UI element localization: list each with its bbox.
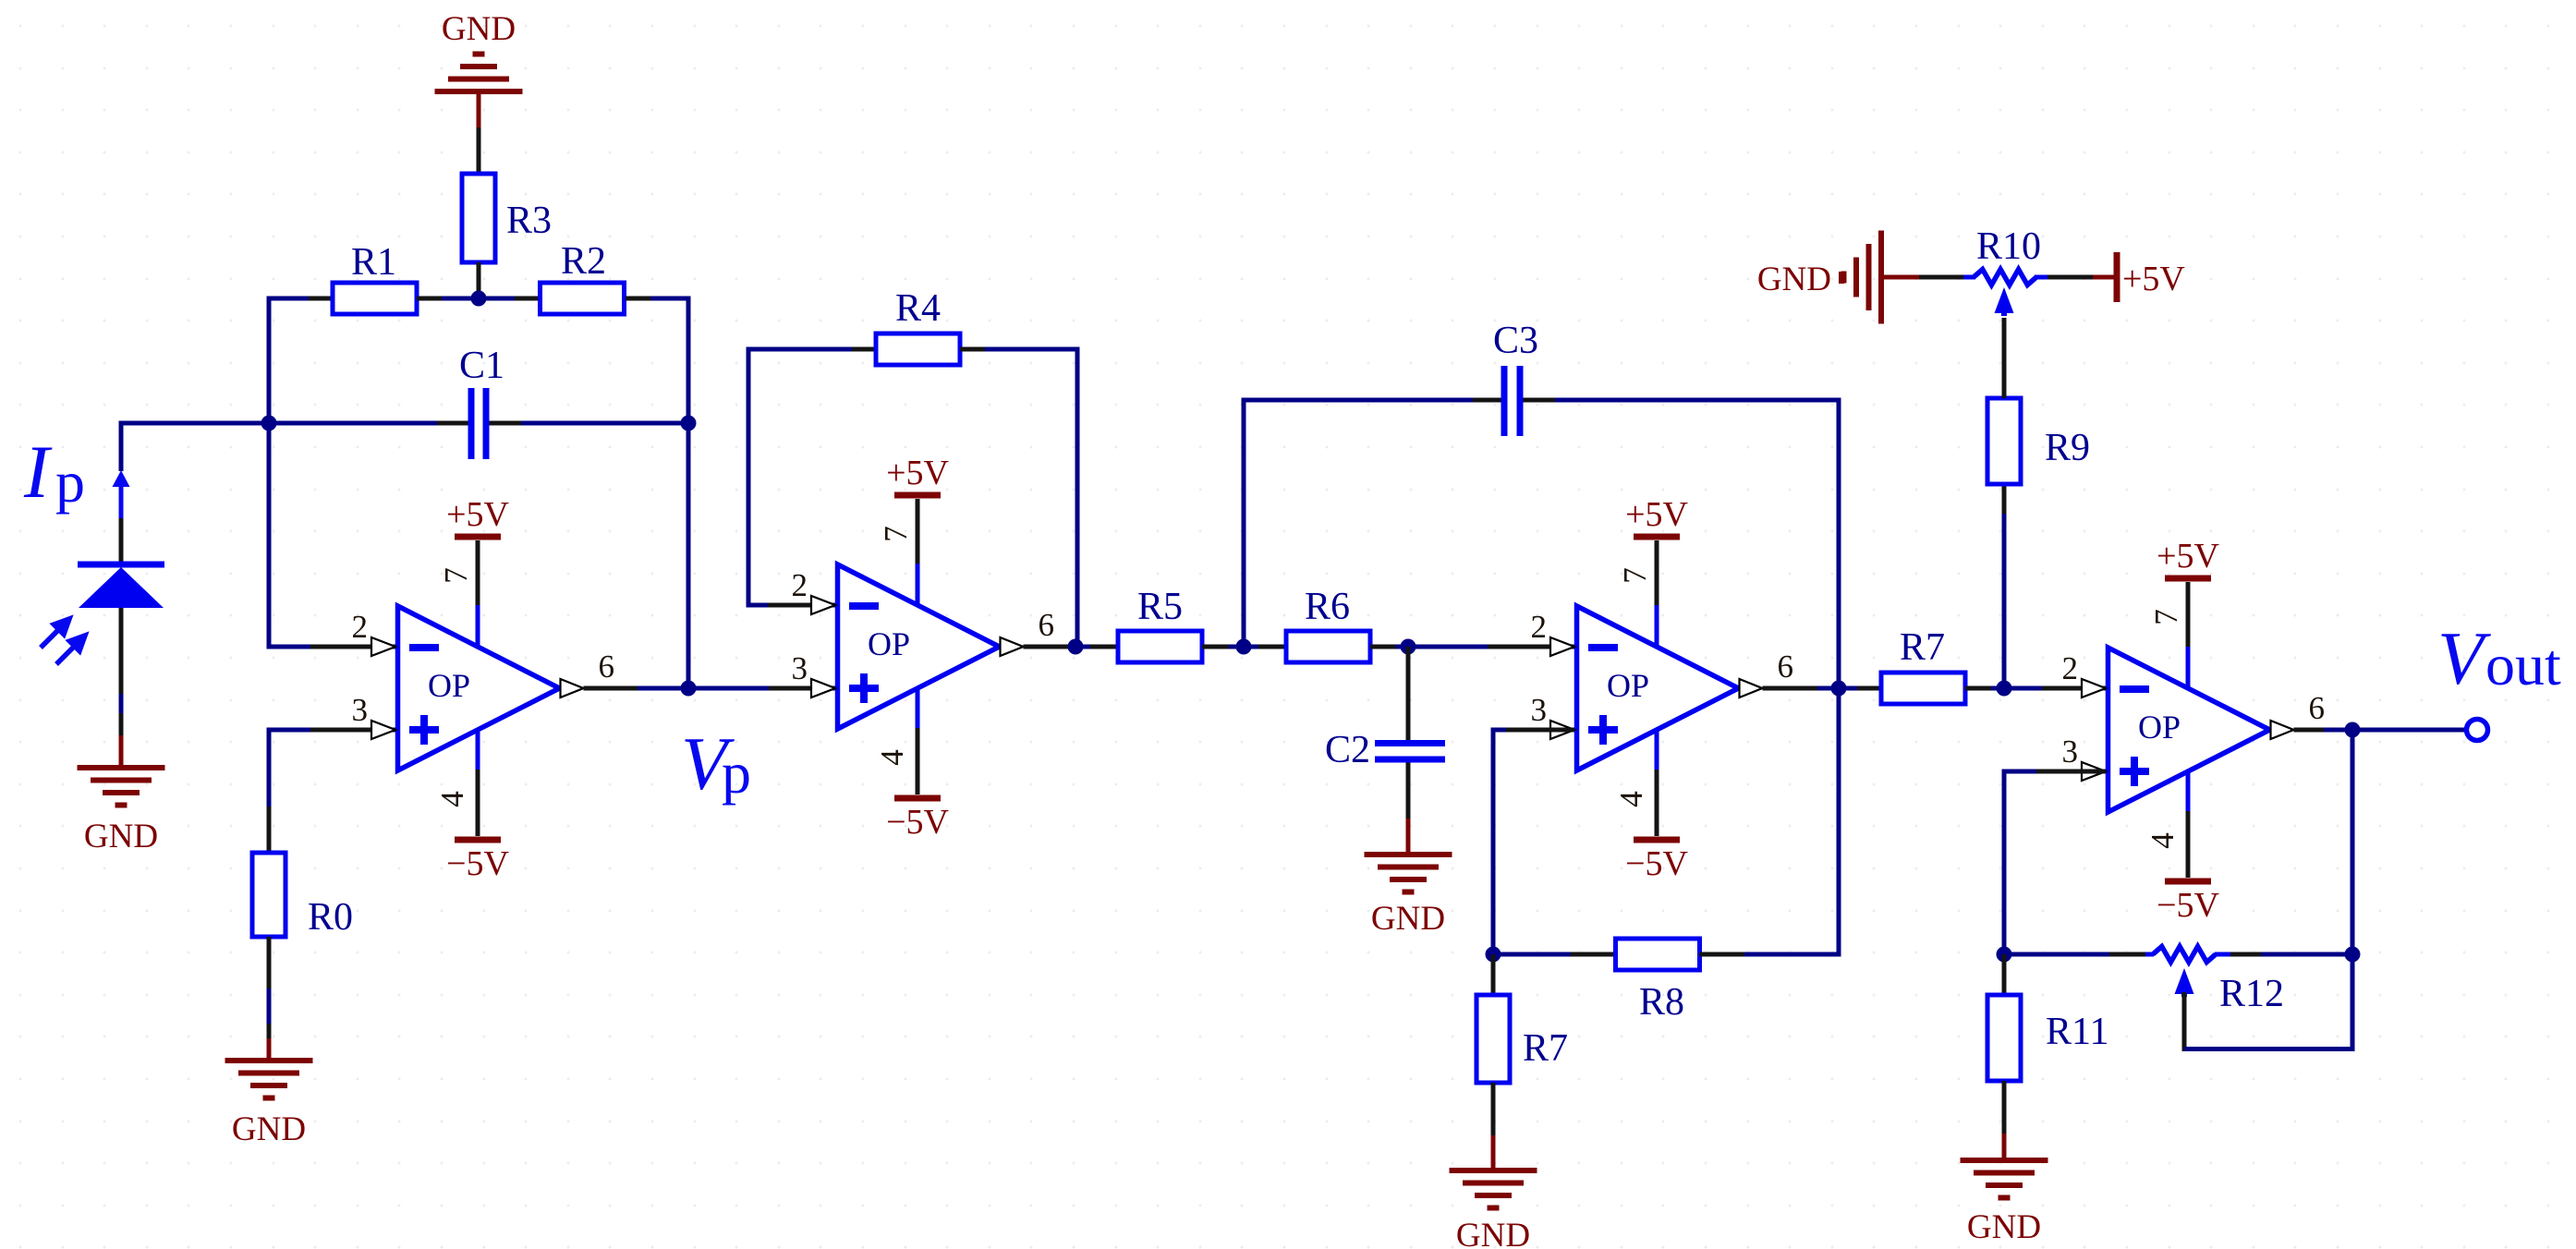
−5V label U3: [1625, 844, 1688, 883]
wire right column C1-row to Vp-row: [687, 423, 691, 688]
wire R2 right pin: [626, 297, 650, 301]
svg-text:R5: R5: [1137, 586, 1183, 628]
junction R1/R2/R3: [471, 291, 487, 307]
svg-text:V: V: [2437, 616, 2491, 700]
wire node to U4 pin 2: [2004, 686, 2106, 691]
wire R1 to node: [442, 297, 479, 301]
resistor R4: [876, 333, 960, 365]
wire R3 bottom pin: [477, 262, 481, 298]
svg-text:+5V: +5V: [446, 495, 509, 534]
wire R3 top pin: [477, 127, 481, 174]
wire R5 right pin: [1202, 645, 1244, 649]
photodiode D1: [78, 564, 164, 608]
svg-text:7: 7: [878, 526, 914, 542]
svg-text:R12: R12: [2219, 973, 2284, 1015]
junction C1 right node: [681, 416, 697, 431]
resistor R11: [1987, 995, 2021, 1081]
svg-text:4: 4: [2145, 832, 2181, 849]
R7 label (bottom): [1523, 1027, 1568, 1070]
R6 label: [1305, 586, 1350, 628]
output terminal (Vout): [2467, 720, 2488, 741]
Vp label: [681, 722, 751, 806]
U1 pin 2 label: [352, 609, 369, 645]
wire R5 left pin: [1075, 645, 1118, 649]
C1 label: [459, 345, 504, 387]
wire R6 left pin: [1244, 645, 1286, 649]
Ip current arrow: [113, 470, 130, 518]
wire left column R1-row to C1-row: [267, 297, 272, 424]
wire R1 left pin: [309, 297, 333, 301]
wire U2 output pin 6: [1024, 645, 1076, 649]
resistor R3: [462, 174, 495, 262]
svg-text:+5V: +5V: [1625, 495, 1688, 534]
wire C2 bottom pin: [1406, 763, 1411, 819]
GND label (below R0): [232, 1110, 306, 1148]
resistor R6: [1286, 631, 1370, 662]
junction R7/R8 node: [1486, 947, 1501, 963]
wire Vout node to terminal: [2352, 728, 2465, 733]
wire U3 output pin 6: [1763, 686, 1840, 691]
junction R12 right node: [2345, 947, 2361, 963]
wire U2 pin 2 feedback corner: [748, 347, 835, 608]
U3 pin 6 label: [1778, 649, 1794, 685]
wire R6 right pin: [1370, 645, 1408, 649]
U4 pin 6 arrow: [2271, 721, 2294, 739]
svg-text:GND: GND: [1456, 1217, 1530, 1249]
wire R10 wiper to R9: [2002, 318, 2007, 398]
capacitor C3: [1501, 366, 1524, 436]
junction R5/R6/C3 node: [1236, 639, 1252, 655]
wire op-amp U1 pin 2: [267, 645, 396, 649]
svg-text:+5V: +5V: [2157, 537, 2219, 576]
svg-text:R9: R9: [2045, 427, 2090, 469]
svg-text:6: 6: [2309, 690, 2326, 726]
−5V label U2: [886, 803, 949, 842]
wire to ground (R7): [1491, 1135, 1496, 1170]
wire R1 right pin: [417, 297, 442, 301]
wire R11 top pin: [2002, 954, 2007, 995]
junction R6/C2/U3 node: [1401, 639, 1416, 655]
svg-text:3: 3: [2062, 734, 2079, 770]
wire Vout column down: [2351, 730, 2355, 954]
+5V label U2: [886, 454, 949, 492]
svg-text:GND: GND: [232, 1110, 306, 1148]
svg-text:4: 4: [1613, 791, 1649, 807]
op-amp U1: [398, 606, 560, 770]
U3 pin 4 label: [1613, 791, 1649, 807]
svg-text:p: p: [55, 449, 85, 515]
svg-text:3: 3: [352, 692, 369, 728]
U1 pin 3 arrow: [371, 721, 395, 739]
svg-text:R10: R10: [1976, 225, 2041, 268]
wire R12 wiper loop: [2184, 954, 2355, 1051]
U2 pin 2 arrow: [811, 596, 835, 614]
U3 pin 2 arrow: [1550, 637, 1574, 656]
wire to ground (C2): [1406, 819, 1411, 855]
wire left column C1-row to pin2-row: [267, 423, 272, 647]
+5V label U1: [446, 495, 509, 534]
svg-text:OP: OP: [1607, 667, 1649, 704]
wire C1 left lead: [269, 421, 468, 426]
resistor R5: [1118, 631, 1202, 662]
wire op-amp U1 pin 3: [269, 728, 395, 854]
svg-text:R1: R1: [351, 241, 396, 284]
wire U3 pin 3: [1493, 728, 1574, 955]
U4 pin 7 label: [2148, 609, 2184, 625]
GND label (R10): [1757, 261, 1831, 298]
capacitor C2: [1375, 740, 1445, 763]
U3 pin 2 label: [1531, 609, 1548, 645]
svg-text:GND: GND: [1757, 261, 1831, 298]
svg-text:7: 7: [2148, 609, 2184, 625]
wire R7 top pin (bottom R7): [1491, 954, 1496, 995]
R12 label: [2219, 973, 2284, 1015]
resistor R8: [1616, 939, 1700, 970]
−5V power bar U1: [455, 837, 501, 843]
resistor R7 (bottom): [1476, 995, 1510, 1083]
svg-text:2: 2: [2062, 650, 2079, 686]
U4 pin 2 label: [2062, 650, 2079, 686]
Vout label: [2437, 616, 2561, 700]
U1 pin 6 arrow: [561, 679, 584, 697]
U3 pin 7 label: [1617, 567, 1653, 584]
wire R12 right lead: [2215, 952, 2352, 957]
svg-text:OP: OP: [868, 625, 910, 662]
svg-text:7: 7: [438, 567, 474, 584]
junction Vp node: [681, 681, 697, 697]
svg-text:R6: R6: [1305, 586, 1350, 628]
U4 pin 4 wire: [2186, 770, 2191, 878]
wire R10 right lead: [2035, 275, 2093, 280]
op-amp U3: [1577, 606, 1739, 770]
U3 pin 4 wire: [1655, 729, 1659, 836]
svg-text:C1: C1: [459, 345, 504, 387]
+5V label U3: [1625, 495, 1688, 534]
U1 pin 3 label: [352, 692, 369, 728]
wire C3 left lead: [1242, 398, 1502, 403]
ground GND (below C2): [1365, 855, 1452, 892]
R0 label: [308, 896, 353, 939]
photodiode light arrows: [41, 619, 85, 664]
svg-text:I: I: [23, 430, 53, 514]
svg-text:R11: R11: [2046, 1011, 2108, 1053]
GND label (photodiode): [84, 818, 158, 855]
R3 label: [506, 200, 552, 242]
svg-text:4: 4: [874, 749, 910, 766]
ground GND (below R11): [1961, 1160, 2048, 1198]
R4 label: [895, 287, 941, 330]
resistor R1: [333, 283, 417, 314]
GND label (top): [442, 10, 516, 48]
junction R7/R9/U4 node: [1997, 681, 2012, 697]
U4 pin 2 arrow: [2082, 679, 2106, 697]
−5V power bar U2: [894, 795, 941, 802]
potentiometer R12: [2153, 947, 2216, 998]
+5V label U4: [2157, 537, 2219, 576]
ground GND (below R0): [225, 1061, 313, 1098]
U2 pin 2 label: [792, 567, 808, 603]
U1 pin 2 arrow: [371, 637, 395, 656]
ground GND (photodiode): [78, 768, 165, 806]
svg-text:+5V: +5V: [2122, 260, 2185, 298]
svg-text:−5V: −5V: [1625, 844, 1688, 883]
svg-text:R2: R2: [561, 240, 606, 283]
junction Vout node: [2345, 722, 2361, 738]
wire R12 left lead: [2004, 952, 2154, 957]
wire R4 right lead: [960, 347, 1077, 352]
−5V power bar U4: [2165, 879, 2211, 885]
wire C3 left riser: [1242, 398, 1246, 648]
GND label (below C2): [1371, 900, 1445, 938]
svg-text:6: 6: [1039, 607, 1055, 643]
wire R10 left lead: [1917, 275, 1975, 280]
C2 label: [1325, 729, 1370, 771]
wire C3 right riser: [1837, 398, 1841, 689]
svg-text:6: 6: [599, 649, 615, 685]
svg-text:3: 3: [792, 650, 808, 686]
−5V label U1: [446, 844, 509, 883]
svg-text:6: 6: [1778, 649, 1794, 685]
svg-text:3: 3: [1531, 692, 1548, 728]
wire Vp node to U2 pin 3: [688, 686, 835, 691]
wire C2 top pin: [1406, 647, 1411, 741]
wire photodiode top pin: [119, 518, 124, 562]
junction C1 left node: [261, 416, 277, 431]
+5V power bar U1: [455, 534, 501, 540]
+5V power bar U4: [2165, 576, 2211, 582]
svg-text:−5V: −5V: [886, 803, 949, 842]
wire C1 right lead: [490, 421, 689, 426]
U2 pin 6 arrow: [1001, 637, 1024, 656]
svg-text:−5V: −5V: [446, 844, 509, 883]
ground GND (left of R10): [1841, 231, 1919, 324]
wire to ground (R0): [267, 1038, 272, 1061]
wire U1 output pin 6: [584, 686, 689, 691]
U2 pin 6 label: [1039, 607, 1055, 643]
op-amp U2: [838, 564, 1000, 729]
wire R11 bottom pin: [2002, 1081, 2007, 1134]
U2 pin 4 wire: [916, 687, 920, 794]
svg-text:C2: C2: [1325, 729, 1370, 771]
R11 label: [2046, 1011, 2108, 1053]
op-amp U4: [2108, 648, 2270, 812]
U2 pin 4 label: [874, 749, 910, 766]
U4 pin 4 label: [2145, 832, 2181, 849]
wire to ground (photodiode): [119, 735, 124, 768]
svg-text:out: out: [2485, 632, 2561, 697]
R8 label: [1639, 981, 1684, 1024]
svg-text:R8: R8: [1639, 981, 1684, 1024]
wire R7 left pin (top R7): [1839, 686, 1881, 691]
R9 label: [2045, 427, 2090, 469]
wire node to U3 pin 2: [1408, 645, 1574, 649]
R5 label: [1137, 586, 1183, 628]
svg-text:R7: R7: [1523, 1027, 1568, 1070]
wire R7 right pin: [1965, 686, 2004, 691]
wire photodiode bottom pin: [119, 608, 124, 735]
wire R8 left lead: [1493, 952, 1616, 957]
resistor R0: [252, 853, 286, 937]
resistor R2: [541, 283, 625, 314]
−5V power bar U3: [1634, 837, 1680, 843]
wire R4 loop down to U2 output: [1075, 347, 1080, 648]
U1 pin 4 wire: [476, 729, 480, 836]
resistor R7 (top): [1881, 673, 1965, 704]
+5V power bar (R10): [2093, 252, 2117, 302]
wire R4 left lead: [747, 347, 877, 352]
wire R8 right lead: [1699, 952, 1841, 957]
C3 label: [1493, 320, 1538, 362]
U4 pin 6 label: [2309, 690, 2326, 726]
wire R2 to right column: [650, 297, 688, 424]
+5V power bar U2: [894, 492, 941, 499]
svg-text:R7: R7: [1900, 626, 1945, 669]
U1 pin 7 wire: [476, 540, 480, 648]
U3 pin 7 wire: [1655, 540, 1659, 648]
junction U2 output node: [1068, 639, 1084, 655]
U3 pin 6 arrow: [1740, 679, 1763, 697]
−5V label U4: [2157, 886, 2219, 925]
GND label (below R11): [1967, 1208, 2041, 1246]
svg-text:−5V: −5V: [2157, 886, 2219, 925]
wire node to R2: [479, 297, 515, 301]
svg-text:2: 2: [792, 567, 808, 603]
U4 pin 7 wire: [2186, 582, 2191, 689]
svg-text:R0: R0: [308, 896, 353, 939]
wire R8 right riser: [1837, 688, 1841, 957]
svg-text:OP: OP: [2138, 709, 2181, 746]
svg-text:GND: GND: [1371, 900, 1445, 938]
wire to ground (R11): [2002, 1134, 2007, 1160]
U1 pin 4 label: [434, 791, 470, 807]
resistor R9: [1987, 398, 2021, 484]
U1 pin 6 label: [599, 649, 615, 685]
U3 pin 3 arrow: [1550, 721, 1574, 739]
wire R7 bottom pin: [1491, 1083, 1496, 1135]
potentiometer R10: [1974, 270, 2036, 317]
wire node A horizontal (to R1): [269, 297, 309, 301]
U3 pin 3 label: [1531, 692, 1548, 728]
+5V power bar U3: [1634, 534, 1680, 540]
wire R9 bottom pin: [2002, 484, 2007, 688]
svg-text:GND: GND: [442, 10, 516, 48]
svg-text:R4: R4: [895, 287, 941, 330]
R2 label: [561, 240, 606, 283]
svg-text:OP: OP: [428, 667, 470, 704]
R7 label (top): [1900, 626, 1945, 669]
U4 pin 3 arrow: [2082, 762, 2106, 781]
wire C3 right lead: [1524, 398, 1841, 403]
svg-text:4: 4: [434, 791, 470, 807]
svg-text:GND: GND: [1967, 1208, 2041, 1246]
wire U4 output pin 6: [2294, 728, 2353, 733]
svg-text:R3: R3: [506, 200, 552, 242]
svg-text:GND: GND: [84, 818, 158, 855]
ground GND (top, above R3): [435, 55, 523, 128]
svg-text:2: 2: [352, 609, 369, 645]
Ip label: [23, 430, 85, 515]
GND label (below R7): [1456, 1217, 1530, 1249]
junction U3 output node: [1831, 681, 1847, 697]
svg-text:p: p: [722, 740, 751, 806]
svg-text:C3: C3: [1493, 320, 1538, 362]
wire U4 pin 3: [2004, 770, 2106, 955]
+5V label (R10): [2122, 260, 2185, 298]
U1 pin 7 label: [438, 567, 474, 584]
wire R2 left pin: [515, 297, 539, 301]
capacitor C1: [468, 388, 490, 459]
svg-text:7: 7: [1617, 567, 1653, 584]
wire R0 bottom pin: [267, 937, 272, 1038]
U4 pin 3 label: [2062, 734, 2079, 770]
U2 pin 3 arrow: [811, 679, 835, 697]
U2 pin 7 label: [878, 526, 914, 542]
wire C1 row left segment: [121, 421, 269, 426]
ground GND (below R7): [1450, 1170, 1537, 1208]
junction R11/R12 node: [1997, 947, 2012, 963]
svg-text:+5V: +5V: [886, 454, 949, 492]
U2 pin 3 label: [792, 650, 808, 686]
svg-text:2: 2: [1531, 609, 1548, 645]
R1 label: [351, 241, 396, 284]
U2 pin 7 wire: [916, 499, 920, 606]
wire C1-row corner down to Ip arrow: [119, 421, 124, 472]
R10 label: [1976, 225, 2041, 268]
